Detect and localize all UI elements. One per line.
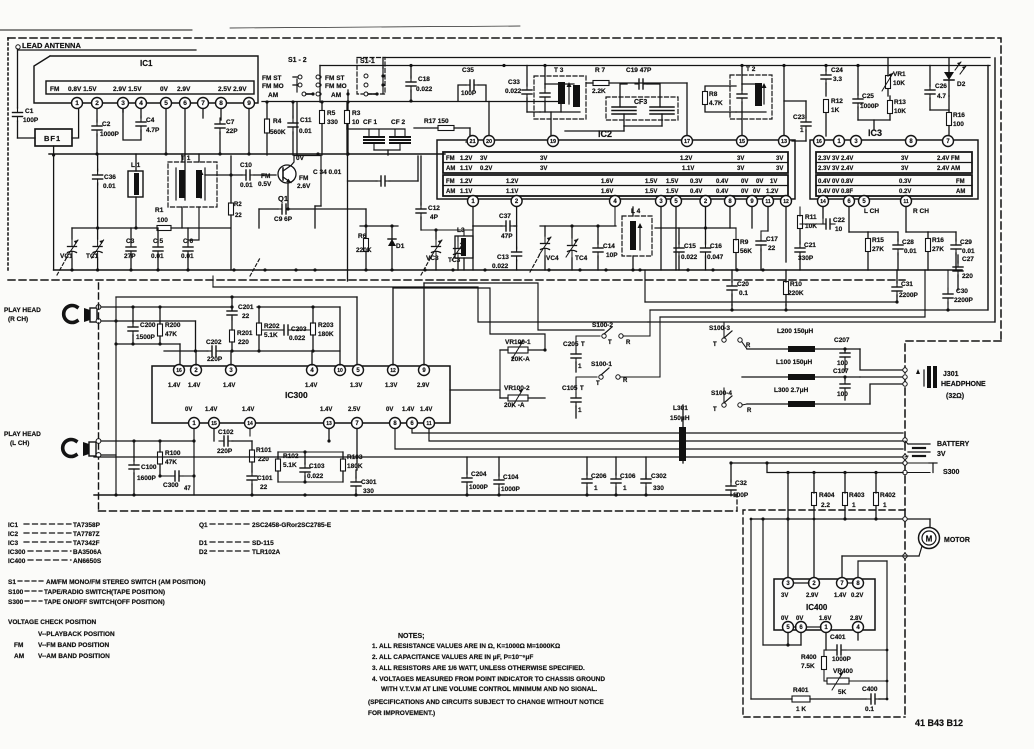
capacitor C10 bbox=[242, 170, 254, 180]
svg-text:1V: 1V bbox=[770, 179, 777, 185]
svg-text:100: 100 bbox=[953, 121, 964, 128]
resistor R203 bbox=[311, 323, 316, 335]
IC3 voltage table lower bbox=[816, 175, 972, 196]
svg-text:LEAD ANTENNA: LEAD ANTENNA bbox=[22, 41, 81, 50]
capacitor C17 bbox=[756, 235, 766, 251]
svg-text:CF 2: CF 2 bbox=[391, 119, 405, 126]
svg-text:NOTES;: NOTES; bbox=[398, 633, 424, 640]
wire pin 13 up bbox=[783, 66, 785, 137]
svg-text:0.022: 0.022 bbox=[289, 335, 306, 342]
svg-text:27K: 27K bbox=[932, 246, 944, 253]
main bottom bus bbox=[54, 269, 962, 271]
variable resistor VR1 bbox=[886, 76, 891, 89]
svg-text:R12: R12 bbox=[831, 98, 843, 105]
svg-text:IC2: IC2 bbox=[598, 129, 612, 139]
svg-text:FM: FM bbox=[261, 173, 270, 180]
svg-text:47P: 47P bbox=[501, 233, 513, 240]
IC400 bottom pins bbox=[783, 622, 794, 633]
capacitor C204 bbox=[462, 472, 472, 488]
transformer T1 primary bbox=[175, 168, 177, 200]
svg-text:C103: C103 bbox=[309, 463, 325, 470]
capacitor C200 bbox=[128, 322, 138, 336]
capacitor C29 bbox=[951, 239, 961, 255]
resistor R200 bbox=[158, 324, 163, 336]
svg-text:(SPECIFICATIONS AND CIRCUITS S: (SPECIFICATIONS AND CIRCUITS SUBJECT TO … bbox=[368, 699, 604, 706]
wire L CH C28 link bbox=[868, 231, 898, 233]
svg-text:560K: 560K bbox=[270, 129, 286, 136]
wire L1 top bbox=[135, 154, 137, 171]
resistor R4 bbox=[265, 119, 270, 133]
svg-text:0.022: 0.022 bbox=[307, 473, 324, 480]
svg-text:3V: 3V bbox=[901, 156, 908, 162]
resistor R15 bbox=[866, 239, 871, 252]
headphone jack J301 bbox=[916, 366, 937, 388]
svg-text:3. ALL RESISTORS ARE 1/6 WATT: 3. ALL RESISTORS ARE 1/6 WATT, UNLESS OT… bbox=[372, 665, 585, 672]
svg-text:4.7K: 4.7K bbox=[709, 100, 723, 107]
svg-text:R101: R101 bbox=[256, 447, 272, 454]
svg-text:C13: C13 bbox=[497, 254, 509, 261]
wire pin12 long down bbox=[785, 207, 787, 262]
wire pin2b down bbox=[705, 207, 707, 244]
svg-text:2.9V 1.5V: 2.9V 1.5V bbox=[113, 86, 142, 93]
battery contacts bbox=[903, 438, 907, 442]
svg-text:L100 150μH: L100 150μH bbox=[776, 359, 812, 366]
svg-text:4.7P: 4.7P bbox=[146, 127, 160, 134]
T2 wires bbox=[742, 83, 758, 85]
trimmer TC3 bbox=[452, 241, 464, 261]
wire pin2 down to C13 bbox=[516, 207, 518, 249]
left ground vertical bbox=[115, 307, 117, 495]
svg-text:5.1K: 5.1K bbox=[283, 462, 297, 469]
svg-text:1.6V: 1.6V bbox=[601, 179, 613, 185]
svg-text:C11: C11 bbox=[300, 117, 312, 124]
wire pin14 down bbox=[249, 429, 251, 436]
svg-text:(L CH): (L CH) bbox=[10, 440, 29, 447]
svg-text:C3: C3 bbox=[126, 238, 135, 245]
osc rail y209 bbox=[259, 208, 278, 210]
IC1 pin 3 bbox=[118, 98, 129, 109]
svg-text:FM: FM bbox=[299, 175, 308, 182]
wire pin5 pin6 ground bbox=[787, 633, 789, 645]
svg-text:0.2V: 0.2V bbox=[480, 166, 492, 172]
capacitor C103 bbox=[300, 463, 310, 477]
variable capacitor VC3 bbox=[430, 239, 442, 259]
svg-text:0.01: 0.01 bbox=[962, 248, 975, 255]
svg-text:C400: C400 bbox=[862, 686, 878, 693]
svg-text:2SC2458-GRor2SC2785-E: 2SC2458-GRor2SC2785-E bbox=[252, 522, 332, 529]
svg-text:CF3: CF3 bbox=[634, 99, 647, 106]
IC1 pin 1 bbox=[72, 98, 83, 109]
IC1 outline bbox=[34, 56, 258, 103]
svg-text:R17 150: R17 150 bbox=[424, 118, 449, 125]
svg-text:1.5V: 1.5V bbox=[666, 189, 678, 195]
svg-text:1.4V: 1.4V bbox=[223, 383, 235, 389]
resistor R100 bbox=[158, 452, 163, 464]
T3 secondary bar bbox=[573, 85, 580, 107]
wire L300 to jack node bbox=[870, 384, 902, 404]
svg-text:1000P: 1000P bbox=[469, 484, 488, 491]
svg-text:3: 3 bbox=[121, 100, 125, 107]
play head L CH symbol bbox=[63, 440, 76, 457]
resistor R6 bbox=[364, 239, 369, 252]
svg-text:1.2V: 1.2V bbox=[506, 179, 518, 185]
svg-text:C206: C206 bbox=[591, 473, 607, 480]
svg-text:R201: R201 bbox=[237, 330, 253, 337]
resistor R16 top bbox=[947, 113, 952, 126]
top rail y65 bbox=[320, 65, 990, 67]
svg-text:R16: R16 bbox=[953, 112, 965, 119]
IC2 pin 19 bbox=[548, 136, 559, 147]
tape dashed frame right jog bbox=[736, 490, 738, 511]
wire T3 to pin 19 bbox=[550, 112, 552, 136]
capacitor C100 bbox=[129, 460, 139, 474]
svg-text:C16: C16 bbox=[710, 243, 722, 250]
transistor Q1 FM osc bbox=[278, 165, 296, 183]
svg-text:21: 21 bbox=[470, 139, 476, 145]
svg-text:C21: C21 bbox=[804, 242, 816, 249]
IC2 pin 13 bbox=[779, 136, 790, 147]
S300 feed taps bbox=[786, 471, 789, 474]
signal fan wire f4 bbox=[450, 390, 500, 398]
S1-1 pole wires bbox=[382, 68, 384, 94]
svg-text:0.022: 0.022 bbox=[416, 86, 433, 93]
wire pin6 down to R15 bbox=[848, 207, 850, 232]
svg-text:10: 10 bbox=[337, 368, 343, 374]
svg-text:IC1: IC1 bbox=[140, 59, 153, 68]
svg-text:S300: S300 bbox=[8, 599, 24, 606]
svg-text:TC4: TC4 bbox=[575, 255, 588, 262]
svg-text:SD-115: SD-115 bbox=[252, 540, 274, 547]
CF3 element right bbox=[650, 107, 674, 114]
svg-text:100: 100 bbox=[157, 217, 168, 224]
svg-text:C302: C302 bbox=[651, 473, 667, 480]
svg-text:C401: C401 bbox=[830, 634, 846, 641]
svg-text:0.022: 0.022 bbox=[681, 254, 698, 261]
ground join wire bbox=[763, 644, 801, 646]
svg-text:2200P: 2200P bbox=[954, 297, 973, 304]
routing bends to switches bbox=[644, 270, 646, 302]
svg-text:16: 16 bbox=[176, 368, 182, 374]
motor bus contact bbox=[903, 517, 907, 521]
left loop rail bbox=[750, 519, 752, 699]
variable capacitor VC1 bbox=[66, 239, 78, 259]
capacitor C20 bbox=[727, 280, 737, 296]
resistor R9 bbox=[734, 240, 739, 253]
capacitor C302 bbox=[641, 473, 651, 489]
svg-text:1: 1 bbox=[578, 407, 582, 414]
right rail bbox=[886, 561, 888, 699]
capacitor C27 bbox=[953, 261, 963, 277]
svg-text:2.9V: 2.9V bbox=[417, 383, 429, 389]
svg-text:V--FM BAND POSITION: V--FM BAND POSITION bbox=[38, 642, 109, 649]
VC3 TC3 L3 rail bbox=[421, 229, 473, 231]
svg-text:T: T bbox=[596, 381, 600, 387]
capacitor C201 bbox=[227, 306, 237, 320]
svg-text:3V: 3V bbox=[737, 156, 744, 162]
svg-text:V--AM BAND POSITION: V--AM BAND POSITION bbox=[38, 653, 110, 660]
svg-text:7: 7 bbox=[201, 100, 205, 107]
svg-text:47: 47 bbox=[184, 486, 191, 492]
svg-text:R: R bbox=[747, 408, 752, 414]
wire pin9 down bbox=[751, 207, 753, 228]
jack contacts bbox=[903, 368, 907, 372]
svg-text:13: 13 bbox=[326, 421, 332, 427]
svg-text:C27: C27 bbox=[962, 256, 974, 263]
svg-text:3.3: 3.3 bbox=[833, 76, 842, 83]
motor supply bus bbox=[751, 518, 930, 520]
svg-text:C2: C2 bbox=[102, 121, 111, 128]
svg-text:47K: 47K bbox=[165, 459, 177, 466]
svg-text:10K: 10K bbox=[893, 80, 905, 87]
svg-text:Q1: Q1 bbox=[199, 522, 208, 529]
motor section dashed box bbox=[743, 510, 905, 717]
capacitor C34 bbox=[376, 176, 390, 186]
svg-text:2.4V FM: 2.4V FM bbox=[937, 156, 960, 162]
svg-text:AM: AM bbox=[446, 166, 455, 172]
wire pin1 to BF1 bbox=[72, 109, 79, 138]
svg-text:2.2: 2.2 bbox=[821, 502, 830, 509]
svg-text:1.6V: 1.6V bbox=[601, 189, 613, 195]
R ch bottom rail bbox=[164, 350, 208, 352]
svg-text:1: 1 bbox=[800, 127, 804, 134]
CF3 element left bbox=[612, 107, 636, 114]
svg-text:TA7342F: TA7342F bbox=[73, 540, 100, 547]
svg-text:C24: C24 bbox=[831, 67, 843, 74]
capacitor C101 bbox=[247, 471, 257, 485]
svg-text:20: 20 bbox=[486, 139, 492, 145]
Q1 collector loop bbox=[291, 156, 294, 166]
R6 D1 top rail bbox=[360, 225, 398, 227]
resistor R11 bbox=[798, 216, 803, 229]
tuning gang dashed link VC4 bbox=[530, 254, 540, 272]
tuning gang dashed link VC2 bbox=[250, 258, 260, 276]
R head signal wire bbox=[101, 306, 232, 308]
svg-text:5: 5 bbox=[164, 100, 168, 107]
svg-text:1.4V: 1.4V bbox=[305, 383, 317, 389]
S1-1 dashed box bbox=[357, 58, 385, 95]
svg-text:0.3V: 0.3V bbox=[899, 179, 911, 185]
svg-text:16: 16 bbox=[816, 139, 822, 145]
capacitor C203 bbox=[279, 325, 293, 335]
C401 right lead bbox=[847, 649, 887, 651]
svg-text:56K: 56K bbox=[740, 248, 752, 255]
capacitor C30 bbox=[943, 288, 953, 304]
tape mech dashed boundary bbox=[98, 283, 100, 511]
svg-text:0.01: 0.01 bbox=[299, 128, 312, 135]
svg-text:VC4: VC4 bbox=[546, 255, 559, 262]
capacitor C4 bbox=[136, 116, 146, 132]
IC1 pin 8 bbox=[216, 98, 227, 109]
svg-text:C22: C22 bbox=[833, 217, 845, 224]
resistor R8 bbox=[703, 92, 708, 105]
resistor R403 bbox=[843, 493, 848, 506]
IC3 voltage table upper bbox=[816, 152, 972, 173]
svg-text:2.9V: 2.9V bbox=[806, 593, 818, 599]
capacitor C1 bbox=[13, 108, 23, 122]
svg-text:T: T bbox=[580, 386, 584, 392]
resistor R2 bbox=[229, 203, 234, 215]
svg-text:R15: R15 bbox=[872, 237, 884, 244]
L2 top hook bbox=[315, 205, 321, 207]
svg-text:BA3506A: BA3506A bbox=[73, 549, 102, 556]
svg-text:C 34 0.01: C 34 0.01 bbox=[313, 169, 342, 176]
L4 wires bbox=[632, 207, 634, 216]
svg-text:3V: 3V bbox=[937, 451, 946, 458]
svg-text:3V: 3V bbox=[901, 166, 908, 172]
capacitor C3 bbox=[126, 241, 136, 257]
capacitor C7 bbox=[215, 118, 225, 134]
svg-text:MOTOR: MOTOR bbox=[944, 537, 970, 544]
top rail y58 bbox=[385, 57, 990, 59]
svg-text:1.5V: 1.5V bbox=[645, 179, 657, 185]
left column wire bbox=[53, 155, 55, 270]
svg-text:1.2V: 1.2V bbox=[460, 179, 472, 185]
resistor R3 bbox=[345, 111, 350, 124]
pin1 column bbox=[193, 429, 195, 495]
svg-text:C35: C35 bbox=[462, 67, 474, 74]
wire R17 to IC2 pin 21 area bbox=[466, 135, 470, 142]
svg-text:100: 100 bbox=[837, 391, 848, 398]
svg-text:VC3: VC3 bbox=[426, 255, 439, 262]
wire pin3 down bbox=[122, 109, 124, 112]
wire pin7 down bbox=[356, 429, 358, 470]
IC3 pin 7 bbox=[943, 136, 954, 147]
svg-text:5.1K: 5.1K bbox=[264, 332, 278, 339]
IC2 outline box bbox=[437, 140, 795, 199]
volume pots link wire bbox=[499, 350, 501, 390]
IC3 pin 1 bbox=[834, 136, 845, 147]
R13 C25 bottom wire bbox=[858, 119, 890, 121]
svg-text:C36: C36 bbox=[104, 174, 116, 181]
transformer T3 dashed box bbox=[534, 76, 586, 119]
svg-text:0.4V 0V 0.8V: 0.4V 0V 0.8V bbox=[818, 179, 853, 185]
signal fan wire f1 bbox=[213, 287, 648, 322]
wire T1 bottom bbox=[181, 207, 183, 228]
IC400 pin link top bbox=[794, 582, 809, 584]
svg-text:L CH: L CH bbox=[864, 208, 879, 215]
svg-text:S1-1: S1-1 bbox=[360, 58, 375, 65]
svg-text:1.4V: 1.4V bbox=[168, 383, 180, 389]
svg-text:1.1V: 1.1V bbox=[460, 166, 472, 172]
svg-text:S300: S300 bbox=[943, 469, 959, 476]
svg-text:1: 1 bbox=[883, 502, 887, 509]
svg-text:0V: 0V bbox=[160, 86, 169, 93]
svg-text:17: 17 bbox=[684, 139, 690, 145]
T2 coil bar bbox=[755, 83, 762, 106]
C20 R10 bottoms to rail bbox=[731, 305, 733, 310]
svg-text:FM MO: FM MO bbox=[262, 83, 284, 90]
C31 C30 bottoms bbox=[895, 300, 898, 303]
svg-text:FM: FM bbox=[446, 179, 455, 185]
svg-text:100P: 100P bbox=[23, 117, 39, 124]
svg-text:C19 47P: C19 47P bbox=[626, 67, 652, 74]
svg-text:4.7: 4.7 bbox=[937, 93, 946, 100]
IC1 pin 9 bbox=[244, 98, 255, 109]
svg-text:C25: C25 bbox=[862, 93, 874, 100]
svg-text:1000P: 1000P bbox=[860, 103, 879, 110]
resistor R10 bbox=[784, 282, 789, 295]
svg-text:1600P: 1600P bbox=[137, 475, 156, 482]
svg-text:TAPE/RADIO SWITCH(TAPE POSITIO: TAPE/RADIO SWITCH(TAPE POSITION) bbox=[44, 589, 165, 596]
capacitor C14 bbox=[593, 242, 603, 258]
svg-text:5K: 5K bbox=[838, 689, 847, 696]
IC300 top pins bbox=[174, 365, 185, 376]
tape section dashed frame bottom bbox=[99, 510, 738, 512]
wire S1-2 AM to S1-1 bbox=[347, 90, 349, 155]
svg-text:2.6V: 2.6V bbox=[297, 183, 311, 190]
tape ground bus bbox=[94, 494, 737, 496]
resistor R404 bbox=[812, 493, 817, 506]
wire rail to pin16 bbox=[179, 344, 181, 365]
IC3 outline box bbox=[810, 140, 978, 199]
wire L200 to jack bbox=[860, 349, 902, 370]
svg-text:AM: AM bbox=[956, 189, 965, 195]
lead antenna underline bbox=[18, 49, 196, 51]
svg-text:IC1: IC1 bbox=[8, 522, 19, 529]
svg-text:TA7787Z: TA7787Z bbox=[73, 531, 100, 538]
svg-text:C200: C200 bbox=[140, 322, 156, 329]
svg-text:C12: C12 bbox=[428, 205, 440, 212]
svg-text:L301: L301 bbox=[673, 405, 688, 412]
svg-text:10P: 10P bbox=[606, 252, 618, 259]
tuner top rail bbox=[72, 227, 157, 229]
svg-text:AM/FM MONO/FM STEREO SWITCH (A: AM/FM MONO/FM STEREO SWITCH (AM POSITION… bbox=[46, 579, 206, 586]
svg-text:1500P: 1500P bbox=[136, 334, 155, 341]
svg-text:R11: R11 bbox=[805, 214, 817, 221]
capacitor C16 bbox=[701, 242, 711, 258]
svg-text:0.1: 0.1 bbox=[865, 706, 874, 713]
svg-text:3V: 3V bbox=[781, 593, 788, 599]
signal fan wire f2 bbox=[393, 288, 545, 350]
IC2 voltage table upper bbox=[443, 152, 788, 173]
svg-text:AM: AM bbox=[446, 189, 455, 195]
svg-text:R8: R8 bbox=[709, 91, 718, 98]
svg-text:27K: 27K bbox=[872, 246, 884, 253]
IC2 pin 15 bbox=[737, 136, 748, 147]
svg-text:VR1: VR1 bbox=[893, 71, 906, 78]
capacitor C25 bbox=[853, 94, 863, 108]
svg-text:PLAY HEAD: PLAY HEAD bbox=[4, 307, 41, 314]
R head lower wire bbox=[101, 320, 196, 322]
trimmer TC4 bbox=[566, 238, 578, 258]
capacitor C206 bbox=[582, 473, 592, 489]
svg-text:1.4V: 1.4V bbox=[205, 407, 217, 413]
svg-text:330: 330 bbox=[363, 488, 374, 495]
C34 right column bbox=[417, 156, 419, 181]
svg-text:19: 19 bbox=[550, 139, 556, 145]
output routing wire v2 bbox=[648, 58, 995, 322]
svg-text:FM ST: FM ST bbox=[325, 75, 345, 82]
svg-text:0.4V: 0.4V bbox=[690, 189, 702, 195]
svg-text:15: 15 bbox=[739, 139, 745, 145]
wire pin1 down bbox=[472, 207, 474, 226]
svg-text:C300: C300 bbox=[163, 482, 179, 489]
play head R CH contacts bbox=[96, 305, 101, 310]
pin8 loop to right rail bbox=[858, 561, 887, 577]
svg-text:AM: AM bbox=[14, 653, 24, 660]
L ch feedback rail bbox=[278, 451, 343, 453]
svg-text:S100-1: S100-1 bbox=[591, 361, 612, 368]
main bus under IC1 bbox=[49, 153, 445, 155]
svg-text:C26: C26 bbox=[935, 83, 947, 90]
capacitor C37 bbox=[501, 221, 515, 231]
svg-text:VR100-1: VR100-1 bbox=[505, 339, 531, 346]
IC1 pin 7 bbox=[198, 98, 209, 109]
svg-text:15: 15 bbox=[211, 421, 217, 427]
wires tape comps to IC300 top pins bbox=[195, 351, 197, 365]
capacitor C300 bbox=[171, 471, 183, 481]
R ch ground rail bbox=[116, 343, 180, 345]
